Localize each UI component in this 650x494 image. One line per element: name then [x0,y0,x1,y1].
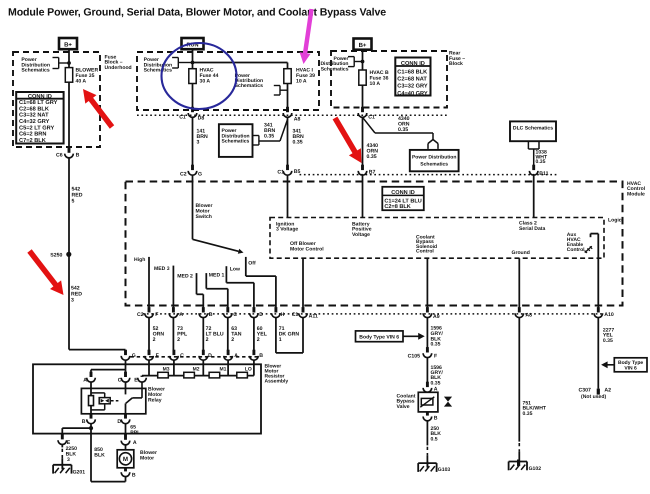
svg-text:Schematics: Schematics [222,139,250,145]
wire B tap [253,360,255,375]
wire RUN into box [192,49,194,68]
wire 542 RED 3 [69,254,82,349]
svg-text:MED 3: MED 3 [154,266,170,272]
svg-text:G201: G201 [73,469,86,475]
connector pin A (switch) [169,307,183,318]
svg-text:M: M [123,456,128,463]
svg-text:3 Voltage: 3 Voltage [276,227,298,233]
svg-text:2: 2 [177,337,180,343]
annotation blue ellipse around fuse 44 [162,43,237,109]
wire B5 to ignition 3 voltage [287,175,289,217]
svg-text:M1: M1 [220,366,227,372]
wire 4340 ORN to B7 [363,117,379,165]
resistor M1 [209,366,227,378]
blower motor pin B [121,468,136,479]
wire 850 BLK (motor ground) [91,428,126,482]
svg-text:C2: C2 [137,312,144,318]
label power distribution schematics (left) [21,57,50,74]
resistor chain row [142,375,254,377]
svg-text:CONN ID: CONN ID [401,61,425,67]
relay movable contact arm [126,382,142,403]
wire 250 BLK 0.5 [427,421,441,468]
svg-text:High: High [134,257,145,263]
label power distribution schematics (middle) [144,57,173,74]
svg-text:Power Distribution: Power Distribution [412,155,456,161]
referral bracket power distribution (left) [53,58,71,69]
DLC schematics referral box [510,121,556,141]
svg-text:Serial Data: Serial Data [519,226,545,232]
svg-text:MED 2: MED 2 [177,274,193,280]
relay pin E [134,376,146,384]
connector C2 pin F [137,307,158,318]
svg-text:Switch: Switch [196,214,212,220]
svg-text:C7=2 BLK: C7=2 BLK [19,138,47,144]
svg-text:0.35: 0.35 [431,342,441,348]
svg-text:Motor Control: Motor Control [290,246,324,252]
label fuse block underhood [105,54,132,71]
connector pin D (resistor) [199,350,212,360]
fuse F36 HVAC-B 10A [359,70,389,87]
connector pin B (switch) [199,307,213,318]
svg-text:Low: Low [230,266,240,272]
relay pin B [82,413,96,425]
svg-text:DK GRN: DK GRN [279,331,300,337]
svg-text:A: A [234,353,238,359]
svg-text:0.35: 0.35 [603,338,613,344]
label off blower motor control [290,241,324,253]
svg-text:Schematics: Schematics [321,66,349,72]
wire 542 to blower resistor pin G [69,349,126,351]
referral box power distribution (4340 branch) [410,150,459,171]
svg-text:A8: A8 [525,313,532,319]
relay pin D [117,413,129,425]
connector pin D (switch) [250,307,264,318]
svg-text:MED 1: MED 1 [209,273,225,279]
svg-text:M3: M3 [163,366,170,372]
CONN ID table (rear) [395,58,430,97]
wire fuse44 to D8 [192,84,194,108]
wire coolant bypass control to A9 [426,258,428,307]
relay fixed contact [125,382,127,394]
svg-text:B: B [82,419,86,425]
fuse F44 HVAC 30A [189,68,219,85]
label ground (module) [512,250,530,256]
wire relay B to ground node [90,424,92,428]
wire 2250 BLK 3 [62,445,77,469]
svg-text:B: B [76,153,80,159]
wire 2277 YEL 0.35 [598,318,614,389]
svg-text:0.35: 0.35 [367,154,377,160]
connector pin C (resistor) [170,350,185,360]
svg-text:A8: A8 [294,116,301,122]
RUN ignition feed box [182,38,204,49]
svg-text:2: 2 [206,337,209,343]
svg-text:Module: Module [627,191,645,197]
svg-text:0.35: 0.35 [536,159,546,165]
svg-text:Logic: Logic [608,218,622,224]
branch wire to fuse 39 [193,63,288,69]
svg-text:A: A [83,378,87,384]
label blower motor resistor assembly [265,363,289,384]
referral bracket (middle right) [274,86,288,96]
aux hvac momentary symbol [585,246,593,253]
svg-text:10 A: 10 A [370,81,381,87]
svg-text:Relay: Relay [148,397,162,403]
connector pin A8 [515,307,532,319]
svg-text:B+: B+ [64,42,72,49]
wire 63 TAN 2 [228,318,242,351]
svg-text:Voltage: Voltage [352,232,370,238]
relay pin C [118,372,130,384]
bracket on referral box [253,136,259,146]
logic inner dashed box [270,218,604,259]
svg-text:3: 3 [197,140,200,146]
connector C307 pin A2 stub (not used) [579,387,612,400]
svg-text:G: G [198,171,202,177]
svg-text:Assembly: Assembly [265,378,289,384]
connector dotted line (module top C1) [300,174,558,176]
svg-text:PPL: PPL [130,430,140,436]
switch position High [134,257,149,308]
relay pin D wire inside [125,403,127,414]
wire 1596 GRY/BLK (lower) [427,358,443,387]
svg-text:G103: G103 [438,467,451,473]
svg-text:Control: Control [567,247,585,253]
svg-text:A10: A10 [604,312,614,318]
connector pin E (2250) [58,434,71,446]
svg-text:F: F [434,354,437,360]
label aux hvac enable control [567,232,585,253]
annotation red arrow 3 (at B7) [333,117,362,163]
label HVAC control module [627,181,646,198]
svg-text:C6=2 BRN: C6=2 BRN [19,132,46,138]
svg-text:M2: M2 [193,366,200,372]
DLC bracket [528,141,539,149]
svg-text:VIN 6: VIN 6 [624,366,637,372]
wire 542 RED 5 [69,158,83,254]
svg-text:10 A: 10 A [296,78,307,84]
switch position MED 3 [154,266,173,308]
svg-text:E: E [134,378,138,384]
svg-text:0.35: 0.35 [264,134,274,140]
svg-text:CONN ID: CONN ID [391,190,415,196]
svg-text:G102: G102 [529,466,542,472]
svg-text:C2=68 NAT: C2=68 NAT [397,77,427,83]
junction node relay B / motor ground [89,426,93,430]
wire A tap [227,360,229,375]
label logic [608,218,622,224]
connector C6 pin B [56,147,80,158]
switch position MED 1 [206,273,228,308]
referral box power distribution (341 branch) [219,124,253,157]
label body type VIN 6 (left) [356,331,425,342]
svg-text:A: A [133,440,137,446]
connector C105 pin F [408,347,438,359]
wire B+ to fuse 35 [68,49,70,67]
wire F tap [148,360,150,375]
svg-text:30 A: 30 A [200,78,211,84]
annotation red arrow 1 (at fuse 35) [83,89,114,129]
connector pin B7 (module) [358,165,375,176]
relay coil parallel element [91,393,110,410]
wire 52 ORN 2 [149,318,164,351]
svg-text:3: 3 [67,457,70,463]
wire 1596 GRY/BLK (upper) [427,318,443,348]
title text [8,7,386,19]
connector pin A (resistor) [224,350,238,361]
svg-text:CONN ID: CONN ID [28,94,52,100]
connector dotted line (fuse blocks) [137,114,447,116]
connector pin B (resistor) [250,350,264,360]
svg-text:B5: B5 [294,169,301,175]
battery B+ terminal (right) [354,39,372,50]
svg-text:C: C [233,312,237,318]
wire module ground to A8 [518,258,520,307]
svg-text:B: B [434,415,438,421]
ground jumper wire [62,428,91,435]
svg-text:C1: C1 [277,169,284,175]
power distribution dashed box (middle) [137,52,319,110]
svg-text:C2=8 BLK: C2=8 BLK [384,204,410,210]
rear fuse block dashed box [331,51,447,108]
svg-text:D: D [208,353,212,359]
svg-text:DLC Schematics: DLC Schematics [513,125,553,131]
wire 73 PPL 2 [173,318,188,351]
blower motor relay box [81,388,145,413]
wire D tap [202,360,204,375]
wire 71 DK GRN 1 (H to A11) [276,318,303,353]
switch position Off [246,257,276,308]
svg-text:C4=40 GRY: C4=40 GRY [397,91,428,97]
svg-text:Control: Control [416,249,434,255]
svg-text:B: B [132,472,136,478]
svg-text:Valve: Valve [397,404,410,410]
wire fuse39 to A8 [287,84,289,108]
wire 341 BRN to B5 [288,117,304,165]
coolant bypass valve box [418,392,438,412]
svg-text:D8: D8 [198,116,205,122]
connector pin C1 (rear fuse block) [358,107,375,121]
aux hvac enable hook wire [591,234,599,308]
svg-text:C1=68 LT GRY: C1=68 LT GRY [19,100,58,106]
wire B11 to class 2 serial data [533,175,535,217]
blower motor switch wiper arm [193,239,244,254]
valve pictograph [444,397,452,407]
label coolant bypass solenoid control [416,234,437,254]
svg-text:C1=68 BLK: C1=68 BLK [397,70,428,76]
coolant bypass valve pin A [423,382,438,393]
wire into motor [125,445,127,450]
svg-text:2: 2 [231,337,234,343]
svg-text:B: B [259,353,263,359]
svg-text:C3=32 GRY: C3=32 GRY [397,84,428,90]
resistor M2 [184,366,200,378]
svg-text:0.5: 0.5 [431,437,438,443]
wire 141 BRN 3 [193,117,208,165]
label body type VIN 6 (right) [601,358,647,372]
connector C1 pin A11 [292,307,318,320]
svg-text:Schematics: Schematics [420,161,448,167]
fuse F35 BLOWER 40A [65,68,98,85]
switch position Low [226,266,254,307]
connector pin F (resistor) [145,350,159,360]
referral bracket (rear) [348,57,364,67]
svg-text:G: G [132,353,136,359]
svg-text:Motor: Motor [140,456,154,462]
referral bracket (middle left) [172,58,194,69]
svg-text:C5=2 LT GRY: C5=2 LT GRY [19,125,54,131]
connector dashed line (resistor assembly) [131,356,260,358]
connector pin B11 (module) [529,165,548,178]
connector pin C (switch) [224,307,238,318]
label battery positive voltage [352,221,372,238]
svg-text:0.35: 0.35 [293,140,303,146]
battery B+ terminal (left) [59,38,77,49]
svg-text:2: 2 [257,337,260,343]
svg-text:C105: C105 [408,354,421,360]
label coolant bypass valve [397,393,416,410]
svg-text:C: C [118,378,122,384]
CONN ID table (module C1/C2) [382,187,424,210]
svg-text:(Not used): (Not used) [581,394,606,400]
wire 65 PPL (relay D to motor) [126,424,141,436]
label rear fuse block [449,51,465,68]
ground G103 [418,461,450,473]
svg-text:0.35: 0.35 [398,127,408,133]
svg-text:Underhood: Underhood [105,65,132,71]
wire fuse35 to C6 [68,82,70,148]
wire 4340 ORN branch to power distribution [363,116,439,149]
connector C2 pin G (module) [180,165,202,178]
svg-text:40 A: 40 A [76,78,87,84]
connector pin A8 (fuse block) [283,107,300,123]
svg-text:C2: C2 [180,171,187,177]
wire G to relay [91,360,126,372]
label blower motor [140,450,157,462]
resistor LO [237,366,252,378]
wire B+ to fuse 36 [362,50,364,70]
relay linkage dashed [111,400,119,402]
svg-text:C4=32 GRY: C4=32 GRY [19,119,50,125]
HVAC control module dashed box [126,182,623,306]
connector C1 pin B5 (module) [277,165,300,176]
CONN ID table (underhood) [16,92,63,144]
fuse block - underhood dashed box [13,52,100,147]
fuse F39 HVAC-I 10A [284,68,315,85]
wire C tap [173,360,175,375]
wire fuse36 to C1 pin [362,85,364,107]
wire motor B to ground wire [125,477,127,482]
connector pin G (resistor) [121,350,136,360]
relay pin A [83,372,95,384]
blower motor resistor assembly box [33,364,261,433]
svg-text:C1: C1 [292,312,299,318]
coolant bypass valve pin B [423,412,438,422]
svg-text:0.35: 0.35 [523,411,533,417]
wire 751 BLK/WHT 0.35 [519,318,547,466]
label class 2 serial data [519,221,545,232]
wire B7 to battery positive voltage [362,175,364,217]
svg-text:0.35: 0.35 [431,380,441,386]
wire 341 BRN branch [259,120,288,142]
annotation magenta arrow (at fuse 39) [300,9,314,64]
svg-text:2: 2 [153,337,156,343]
connector pin A10 [594,307,614,318]
annotation red arrow 2 (at 542 RED 3) [27,249,63,295]
connector dotted line (module bottom) [143,313,603,315]
wire 72 LT BLU 2 [203,318,224,351]
svg-text:C307: C307 [579,387,592,393]
svg-text:F: F [156,353,159,359]
svg-text:D: D [117,419,121,425]
splice S250 [50,252,71,259]
wire 60 YEL 2 [254,318,268,351]
label blower motor relay [148,387,165,404]
label power distribution schematics (middle right) [235,73,264,89]
blower motor M1 [117,450,134,468]
svg-text:S250: S250 [50,253,62,259]
label ignition 3 voltage [276,221,298,232]
svg-text:D: D [259,312,263,318]
svg-text:C: C [180,353,184,359]
svg-text:A: A [179,312,183,318]
svg-text:Block: Block [449,61,463,67]
svg-text:Module Power, Ground, Serial D: Module Power, Ground, Serial Data, Blowe… [8,7,386,19]
svg-text:B+: B+ [359,42,367,49]
svg-text:A2: A2 [604,387,611,393]
connector pin H (switch) [272,307,285,318]
svg-text:Body Type VIN 6: Body Type VIN 6 [359,334,399,340]
svg-text:F: F [155,312,158,318]
blower motor pin A [121,434,137,446]
connector C1 pin D8 [179,107,204,122]
resistor M3 [158,366,170,378]
svg-text:C3=32 NAT: C3=32 NAT [19,113,49,119]
wire C2-G into switch [192,175,194,239]
svg-text:Schematics: Schematics [235,83,263,89]
svg-text:Off: Off [248,261,256,267]
svg-text:3: 3 [71,298,74,304]
label blower motor switch [196,203,213,220]
svg-text:1: 1 [279,337,282,343]
relay coil [89,382,94,414]
svg-text:A11: A11 [309,314,318,320]
svg-text:H: H [281,312,285,318]
svg-text:C6: C6 [56,153,63,159]
ground G201 [53,463,85,476]
wire off blower motor control to A11 [302,258,304,307]
label power distribution schematics (rear) [320,56,348,72]
svg-text:B: B [209,312,213,318]
svg-text:Schematics: Schematics [21,68,49,74]
switch position MED 2 [177,273,203,307]
coolant bypass valve solenoid symbol [420,397,434,407]
svg-text:Schematics: Schematics [144,68,172,74]
svg-text:Ground: Ground [512,250,530,256]
wire 1038 WHT 0.35 [534,149,548,165]
ground G102 [509,460,542,473]
svg-text:BLK: BLK [94,453,105,459]
svg-text:A9: A9 [433,314,440,320]
svg-text:5: 5 [72,199,75,205]
svg-text:C2=68 BLK: C2=68 BLK [19,106,50,112]
svg-text:LO: LO [245,366,252,372]
connector pin A9 [423,307,440,320]
